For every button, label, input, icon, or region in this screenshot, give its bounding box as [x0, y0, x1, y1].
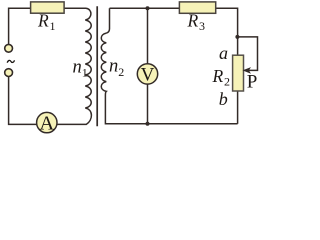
terminal lower — [5, 69, 13, 77]
wire top rail: n2 corner to R3 — [110, 7, 180, 9]
svg-text:b: b — [219, 89, 228, 109]
svg-text:R: R — [212, 66, 224, 86]
svg-text:2: 2 — [118, 65, 124, 79]
ac tilde — [7, 60, 14, 62]
rheostat R2 — [233, 55, 244, 91]
svg-text:A: A — [39, 113, 54, 135]
svg-text:P: P — [247, 72, 258, 93]
node dot wiper branch — [235, 35, 239, 39]
wire R2 bottom to rail — [237, 91, 239, 124]
wire top-left: left rail top and top wire to R1 — [9, 8, 31, 44]
wiper branch wire — [237, 37, 257, 71]
svg-text:R: R — [187, 11, 199, 31]
primary coil n1 — [57, 8, 91, 124]
wire R3 to top-right corner, down right branch — [216, 8, 238, 55]
node dot top (V branch) — [146, 6, 150, 10]
ammeter A — [37, 112, 57, 132]
svg-text:1: 1 — [50, 19, 56, 33]
wire voltmeter branch bottom — [147, 84, 149, 124]
node dot bottom (V branch) — [146, 122, 150, 126]
secondary coil n2 top wire — [106, 8, 109, 33]
resistor R1 — [31, 2, 65, 13]
svg-text:V: V — [141, 65, 155, 86]
svg-text:a: a — [219, 43, 228, 63]
svg-text:n: n — [109, 57, 118, 77]
voltmeter V — [137, 64, 157, 84]
transformer core — [96, 6, 98, 126]
svg-text:3: 3 — [199, 19, 205, 33]
wire n2 bottom to right rail — [105, 95, 237, 124]
wiper arrowhead P — [244, 68, 250, 73]
svg-text:1: 1 — [82, 66, 88, 80]
terminal upper — [5, 44, 13, 52]
svg-text:R: R — [37, 11, 49, 31]
secondary coil n2 — [101, 33, 106, 95]
svg-text:n: n — [73, 57, 82, 77]
wire voltmeter branch top — [147, 8, 149, 63]
wire lower terminal to ammeter — [9, 77, 37, 125]
wire R1 right to n1 coil top — [64, 7, 86, 9]
resistor R3 — [179, 2, 215, 13]
svg-text:2: 2 — [224, 75, 230, 89]
